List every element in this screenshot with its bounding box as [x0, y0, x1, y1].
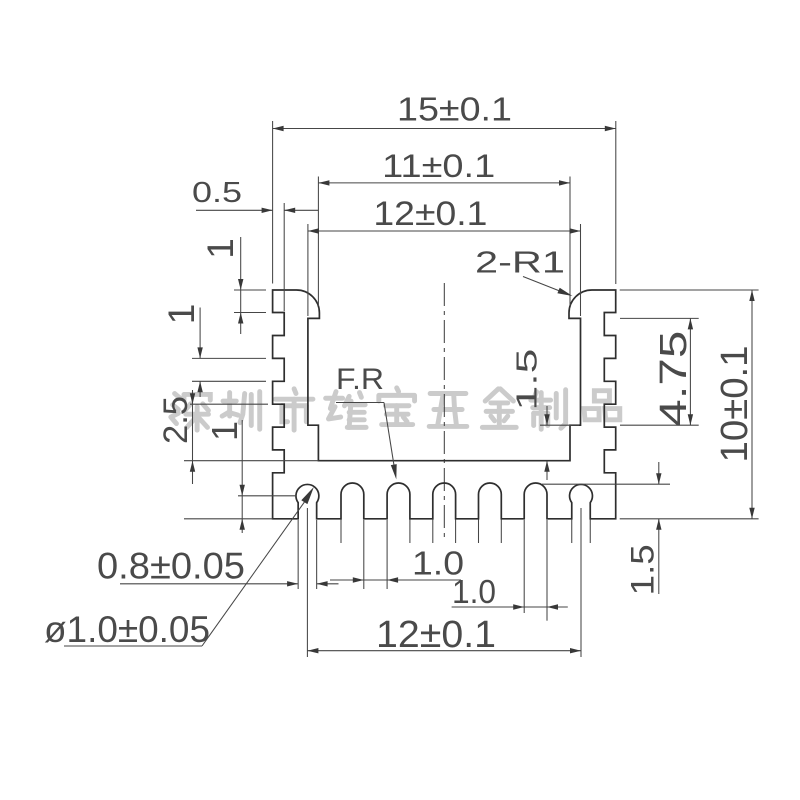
svg-text:11±0.1: 11±0.1	[382, 148, 495, 184]
svg-text:1: 1	[204, 421, 245, 441]
svg-text:0.5: 0.5	[192, 177, 242, 209]
svg-text:12±0.1: 12±0.1	[376, 614, 496, 656]
svg-text:1.5: 1.5	[625, 544, 661, 595]
svg-text:F.R: F.R	[336, 363, 384, 396]
svg-text:12±0.1: 12±0.1	[373, 195, 487, 233]
svg-text:1: 1	[200, 238, 241, 259]
svg-text:2.5: 2.5	[157, 396, 195, 444]
svg-text:15±0.1: 15±0.1	[397, 91, 512, 128]
svg-text:2-R1: 2-R1	[475, 245, 565, 280]
svg-text:0.8±0.05: 0.8±0.05	[97, 546, 245, 587]
svg-text:1.0: 1.0	[452, 573, 496, 610]
svg-text:1.5: 1.5	[512, 349, 544, 411]
svg-text:4.75: 4.75	[653, 331, 695, 427]
svg-text:ø1.0±0.05: ø1.0±0.05	[44, 609, 210, 650]
svg-text:1: 1	[161, 304, 202, 325]
svg-text:10±0.1: 10±0.1	[714, 346, 756, 463]
